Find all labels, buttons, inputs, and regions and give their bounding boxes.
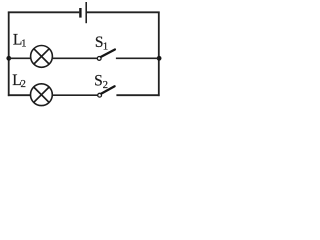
node junction left (branch 1 tap) — [6, 56, 11, 61]
battery negative plate (short thick) — [79, 8, 81, 18]
switch S2 — [98, 86, 115, 97]
wire top-right segment (battery to top-right corner) — [87, 11, 160, 13]
wire branch1 right (switch S1 to right junction) — [116, 57, 159, 59]
lamp L1 — [31, 46, 53, 68]
wire right vertical — [158, 12, 160, 97]
wire left vertical — [8, 12, 10, 97]
wire bottom-left segment (corner to lamp L2) — [8, 94, 31, 96]
wire branch1 left (junction to lamp L1) — [9, 57, 31, 59]
switch S1 — [97, 50, 115, 61]
node junction right (branch 1 tap) — [157, 56, 162, 61]
wire top-left segment (battery to top-left corner) — [8, 11, 79, 13]
svg-text:S: S — [94, 73, 103, 90]
svg-text:2: 2 — [21, 78, 26, 90]
svg-text:2: 2 — [103, 79, 108, 91]
wire bottom middle segment (lamp L2 to switch S2) — [52, 94, 97, 96]
svg-text:1: 1 — [21, 38, 26, 50]
wire branch1 middle (lamp L1 to switch S1) — [52, 57, 97, 59]
wire bottom-right segment (switch S2 to bottom-right corner) — [116, 94, 159, 96]
battery positive plate (long thin) — [85, 2, 87, 23]
lamp L2 — [31, 84, 53, 106]
svg-text:1: 1 — [103, 41, 108, 53]
